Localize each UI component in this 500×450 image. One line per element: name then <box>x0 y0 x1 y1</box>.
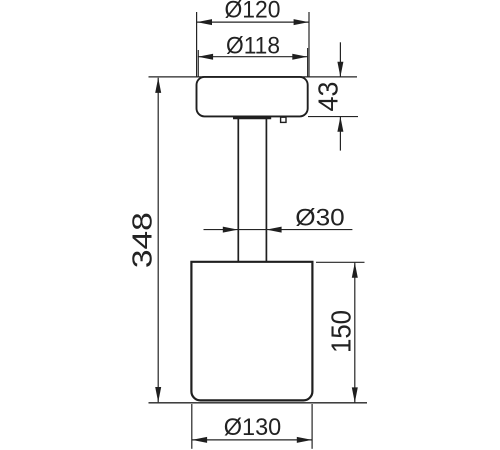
lamp body (base cylinder) outline <box>191 262 312 401</box>
dimension 348 line with arrows <box>155 78 161 403</box>
dimension Ø118 extension line right <box>307 48 309 77</box>
dimension Ø30 right segment with left-pointing arrow <box>266 227 281 233</box>
dimension Ø130 extension line right <box>311 404 313 449</box>
extension line bottom baseline (body bottom level, shared by 348 and 150 dims) <box>149 402 368 404</box>
svg-text:43: 43 <box>312 82 343 112</box>
dimension 43 line upper segment with down arrow <box>337 42 343 77</box>
head bottom mounting segment <box>233 117 271 120</box>
svg-text:Ø30: Ø30 <box>295 205 345 232</box>
dimension 150 line with arrows <box>352 263 358 403</box>
dimension 43 line lower segment with up arrow <box>337 117 343 151</box>
extension line top (head top level, shared by 348 and 43 dims) <box>149 76 358 78</box>
stem right line <box>265 119 267 263</box>
dimension 150 extension line top (body top level) <box>316 261 365 263</box>
dimension Ø130 line <box>192 437 312 443</box>
dimension Ø120 extension line right <box>308 12 310 77</box>
dimension Ø30 left segment with right-pointing arrow <box>204 227 353 233</box>
dimension 43 extension line bottom (head bottom level) <box>308 116 358 118</box>
dimension Ø118 line <box>198 54 308 60</box>
stem left line <box>237 119 239 263</box>
svg-text:348: 348 <box>127 212 158 268</box>
svg-text:Ø120: Ø120 <box>225 0 281 24</box>
dimension Ø130 extension line left <box>191 404 193 449</box>
svg-text:Ø130: Ø130 <box>224 414 282 441</box>
lamp head (shade) outline <box>197 77 308 117</box>
svg-text:150: 150 <box>326 310 357 353</box>
dimension Ø118 extension line left <box>197 50 199 77</box>
switch button square <box>281 117 286 122</box>
dimension Ø120 line <box>197 19 309 25</box>
dimension Ø120 extension line left <box>196 12 198 77</box>
svg-text:Ø118: Ø118 <box>226 32 280 59</box>
